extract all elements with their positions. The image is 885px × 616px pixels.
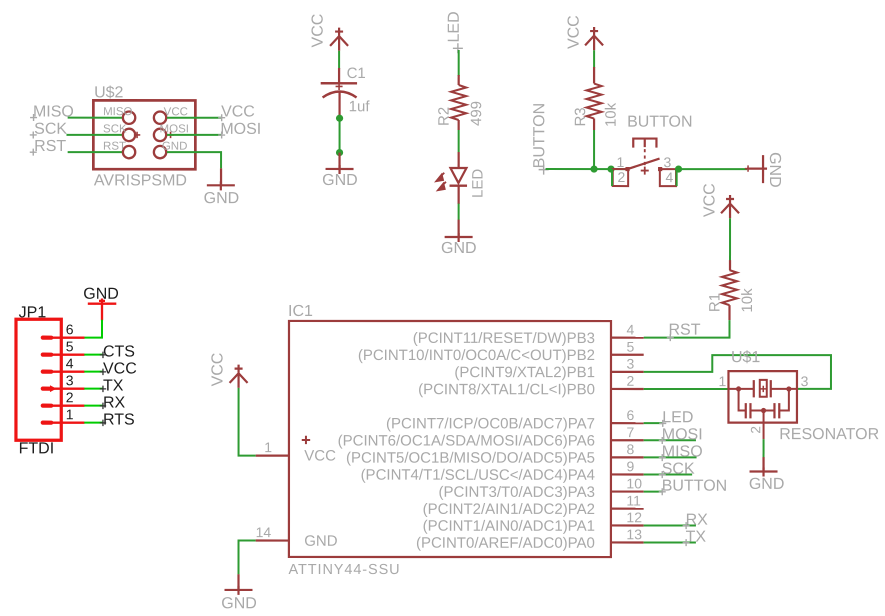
svg-text:SCK: SCK (662, 461, 695, 478)
svg-text:GND: GND (322, 172, 358, 189)
svg-text:JP1: JP1 (19, 304, 47, 321)
IC1 pin 10 stub (611, 490, 644, 492)
junction dot center (761, 408, 766, 413)
svg-text:1: 1 (66, 406, 74, 422)
svg-text:(PCINT8/XTAL1/CL<I)PB0: (PCINT8/XTAL1/CL<I)PB0 (418, 381, 595, 398)
connector U$2 outline (93, 100, 195, 169)
wire PB0 (pin2) to resonator pin 1 (644, 388, 729, 390)
junction dot (336, 149, 343, 156)
U$2 pin circle MISO (123, 111, 135, 123)
resonator crystal plates (754, 380, 771, 397)
svg-text:U$1: U$1 (731, 349, 760, 366)
junction dot (336, 115, 343, 122)
wire stub to GND symbol (338, 153, 340, 169)
supply VCC symbol (R3 VCC) (585, 27, 603, 50)
resistor R2 body (451, 85, 466, 120)
resistor R2 bottom lead (458, 120, 460, 130)
svg-text:3: 3 (66, 372, 74, 388)
svg-text:VCC: VCC (103, 360, 137, 377)
svg-text:(PCINT11/RESET/DW)PB3: (PCINT11/RESET/DW)PB3 (413, 330, 595, 347)
svg-text:VCC: VCC (310, 14, 327, 48)
resonator cap plates right (774, 403, 779, 418)
U$2 pin origin cross right (167, 132, 173, 138)
svg-text:499: 499 (468, 101, 485, 126)
wire net BUTTON horizontal (546, 168, 628, 170)
svg-text:VCC: VCC (566, 15, 583, 49)
IC1 pin 8 stub (611, 456, 644, 458)
svg-text:GND: GND (441, 240, 477, 257)
switch S1 contact pin 1 (625, 167, 629, 171)
svg-text:MOSI: MOSI (160, 123, 189, 135)
svg-text:(PCINT0/AREF/ADC0)PA0: (PCINT0/AREF/ADC0)PA0 (416, 535, 595, 552)
JP1 pin 1 contact (41, 421, 54, 425)
svg-text:1: 1 (718, 373, 726, 389)
resonator crystal pin cross (760, 386, 766, 392)
svg-text:2: 2 (626, 373, 634, 389)
switch S1 pin origin cross (641, 167, 649, 175)
wire IC1 pin 14 to GND (239, 541, 256, 575)
resonator internal crystal leads (728, 388, 797, 390)
ground symbol (rotated, right of switch) (747, 155, 767, 183)
pin end cross (745, 165, 751, 171)
capacitor C1 bottom lead (338, 92, 340, 118)
capacitor C1 pin cross (336, 83, 343, 90)
wire PB1 (pin3) to resonator pin 3 (loop) (644, 355, 831, 389)
U$2 pin circle RST (123, 146, 135, 158)
LED cathode lead (458, 186, 460, 204)
wire branch to pin 4 (676, 169, 678, 186)
svg-text:(PCINT3/T0/ADC3)PA3: (PCINT3/T0/ADC3)PA3 (438, 484, 594, 501)
IC1 pin 6 stub (611, 422, 644, 424)
connector JP1 outline (16, 319, 61, 440)
wire stub to GND symbol (458, 220, 460, 237)
capacitor C1 top plate (321, 82, 357, 84)
svg-text:R3: R3 (572, 107, 589, 126)
ground symbol (resonator GND) (750, 468, 778, 477)
svg-text:VCC: VCC (221, 104, 255, 121)
JP1 pin 5 lead (53, 354, 85, 356)
svg-text:10: 10 (626, 475, 642, 491)
wire VCC to C1 (338, 51, 340, 69)
svg-text:TX: TX (103, 377, 124, 394)
ground symbol (C1 GND) (326, 165, 354, 174)
svg-text:13: 13 (626, 526, 642, 542)
IC1 pin 4 stub (611, 337, 644, 339)
ground symbol (LED GND) (445, 233, 473, 242)
svg-text:GND: GND (221, 595, 257, 612)
svg-text:GND: GND (749, 476, 785, 493)
svg-text:BUTTON: BUTTON (531, 103, 548, 168)
wire stub to GND symbol (220, 168, 222, 185)
svg-text:RX: RX (103, 394, 126, 411)
svg-text:9: 9 (626, 458, 634, 474)
wire pin8 to MISO label (644, 456, 697, 458)
svg-text:RST: RST (34, 138, 66, 155)
U$2 pin circle MOSI (154, 129, 166, 141)
svg-text:SCK: SCK (103, 123, 127, 135)
net label origin cross (453, 43, 463, 53)
svg-text:MOSI: MOSI (220, 121, 261, 138)
U$2 pin origin cross left (134, 132, 140, 138)
IC1 pin 13 stub (611, 541, 644, 543)
svg-text:GND: GND (204, 190, 240, 207)
JP1 pin 6 contact (41, 336, 54, 340)
svg-text:MISO: MISO (103, 106, 132, 118)
wire R2 to LED (458, 130, 460, 152)
JP1 pin 5 contact (41, 353, 54, 357)
svg-text:3: 3 (626, 356, 634, 372)
svg-text:BUTTON: BUTTON (627, 114, 692, 131)
svg-text:(PCINT5/OC1B/MISO/DO/ADC5)PA5: (PCINT5/OC1B/MISO/DO/ADC5)PA5 (346, 450, 595, 467)
switch S1 lever (628, 159, 660, 170)
wire C1 to GND (339, 118, 341, 152)
LED anode lead (458, 152, 460, 168)
JP1 pin 3 contact (41, 387, 54, 391)
IC IC1 outline (289, 321, 611, 557)
svg-text:11: 11 (626, 492, 641, 508)
svg-text:LED: LED (470, 169, 487, 198)
wire U$2 GND pin to ground (167, 152, 221, 168)
svg-text:VCC: VCC (164, 106, 188, 118)
svg-text:(PCINT7/ICP/OC0B/ADC7)PA7: (PCINT7/ICP/OC0B/ADC7)PA7 (386, 415, 595, 432)
svg-text:1uf: 1uf (349, 98, 371, 115)
svg-text:U$2: U$2 (94, 84, 123, 101)
svg-text:(PCINT10/INT0/OC0A/C<OUT)PB2: (PCINT10/INT0/OC0A/C<OUT)PB2 (358, 347, 595, 364)
JP1 pin 2 contact (41, 404, 54, 408)
wire VCC to R1 (729, 218, 731, 261)
wire FTDI GND to pin 6 (84, 320, 102, 338)
ground symbol (U$2 GND) (207, 181, 235, 190)
wire pin6 to LED label (644, 422, 663, 424)
resistor R3 body (587, 84, 602, 119)
svg-text:(PCINT4/T1/SCL/USC</ADC4)PA4: (PCINT4/T1/SCL/USC</ADC4)PA4 (361, 467, 595, 484)
resonator cap branch left (739, 389, 764, 411)
svg-text:2: 2 (748, 426, 763, 434)
svg-text:6: 6 (66, 321, 74, 337)
svg-text:1: 1 (617, 154, 625, 170)
U$2 pin circle GND (154, 146, 166, 158)
capacitor C1 top lead (338, 68, 340, 83)
resistor R2 top lead (458, 75, 460, 85)
svg-text:GND: GND (162, 141, 188, 153)
svg-text:MOSI: MOSI (662, 426, 703, 443)
wire BUTTON net to ground (679, 168, 748, 170)
IC1 VCC pin plus marker (302, 436, 310, 444)
resistor R1 bottom lead (728, 305, 730, 320)
capacitor C1 bottom curved plate (323, 91, 357, 97)
JP1 pin 1 lead (53, 422, 84, 424)
svg-text:VCC: VCC (304, 448, 336, 465)
svg-text:R2: R2 (436, 107, 453, 126)
svg-text:MISO: MISO (662, 443, 703, 460)
supply VCC symbol (R1 VCC) (721, 195, 739, 218)
wire pin12 to RX label (644, 524, 696, 526)
resonator U$1 outline (728, 371, 797, 423)
svg-text:R1: R1 (706, 293, 723, 312)
wire JP1 pin 4 to VCC (84, 371, 102, 373)
svg-text:8: 8 (626, 441, 634, 457)
U$2 pin circle SCK (123, 129, 135, 141)
wire U$2 VCC pin to label (167, 117, 222, 119)
svg-text:1: 1 (264, 439, 272, 455)
svg-text:AVRISPSMD: AVRISPSMD (94, 172, 187, 189)
IC1 pin 11 stub (611, 508, 644, 510)
svg-text:(PCINT6/OC1A/SDA/MOSI/ADC6)PA6: (PCINT6/OC1A/SDA/MOSI/ADC6)PA6 (338, 432, 595, 449)
switch S1 contact pin 3 (658, 167, 662, 171)
junction dot right (786, 386, 791, 391)
svg-text:(PCINT1/AIN0/ADC1)PA1: (PCINT1/AIN0/ADC1)PA1 (423, 518, 595, 535)
svg-text:VCC: VCC (209, 353, 226, 387)
wire stub to GND symbol (237, 574, 239, 590)
IC1 pin 1 stub (VCC) (256, 455, 289, 457)
IC1 pin 7 stub (611, 439, 644, 441)
IC1 pin 5 stub (611, 354, 644, 356)
svg-text:2: 2 (618, 169, 626, 185)
wire VCC to IC1 pin 1 (239, 388, 256, 456)
svg-text:RST: RST (668, 322, 700, 339)
resonator cap plates left (746, 403, 751, 418)
wire R1 to RST net (644, 320, 730, 338)
svg-text:VCC: VCC (702, 183, 719, 217)
wire JP1 pin 1 to RTS (84, 422, 102, 424)
svg-text:4: 4 (66, 355, 74, 371)
svg-text:(PCINT9/XTAL2)PB1: (PCINT9/XTAL2)PB1 (454, 364, 595, 381)
wire net MISO to U$2 pin (68, 117, 123, 119)
wire pin9 to SCK label (644, 473, 693, 475)
svg-text:LED: LED (446, 11, 463, 42)
U$2 pin circle VCC (154, 111, 166, 123)
wire pin13 to TX label (644, 541, 696, 543)
LED triangle (450, 168, 466, 183)
wire net SCK to U$2 pin (66, 134, 123, 136)
junction dot at R3 (590, 165, 597, 172)
svg-text:12: 12 (626, 509, 642, 525)
svg-text:4: 4 (626, 321, 634, 337)
svg-text:GND: GND (766, 152, 783, 188)
resistor R1 top lead (729, 260, 731, 270)
JP1 pin 2 lead (53, 405, 84, 407)
wire LED to GND (458, 204, 460, 220)
JP1 pin 3 lead (53, 388, 84, 390)
wire LED net to R2 (458, 50, 460, 76)
svg-text:10k: 10k (739, 288, 756, 313)
svg-text:ATTINY44-SSU: ATTINY44-SSU (289, 562, 401, 578)
ground symbol (IC1 GND) (224, 586, 252, 595)
supply VCC symbol (IC1 VCC) (230, 365, 248, 388)
svg-text:5: 5 (626, 339, 634, 355)
wire pin10 to BUTTON label (644, 491, 663, 493)
supply VCC symbol (C1 VCC) (330, 28, 348, 51)
svg-text:RST: RST (103, 141, 126, 153)
switch S1 actuator dashed link (644, 149, 646, 166)
junction dot left (736, 386, 741, 391)
IC1 pin 9 stub (611, 473, 644, 475)
net label origin cross (539, 165, 549, 175)
svg-text:4: 4 (666, 169, 674, 185)
svg-text:CTS: CTS (103, 343, 135, 360)
resistor R1 body (722, 270, 737, 305)
svg-text:6: 6 (626, 407, 634, 423)
svg-text:7: 7 (626, 424, 634, 440)
wire net RST to U$2 pin (68, 151, 123, 153)
JP1 pin 6 lead (53, 337, 84, 339)
resonator pin 2 lead (763, 411, 765, 440)
wire branch to pin 2 (611, 169, 613, 186)
svg-text:IC1: IC1 (288, 303, 313, 320)
svg-text:5: 5 (66, 338, 74, 354)
svg-text:(PCINT2/AIN1/ADC2)PA2: (PCINT2/AIN1/ADC2)PA2 (423, 501, 595, 518)
wire JP1 pin 5 to CTS (84, 354, 102, 356)
svg-text:2: 2 (66, 389, 74, 405)
wire JP1 pin 2 to RX (84, 405, 102, 407)
ground symbol FTDI (red, flipped) (88, 298, 117, 320)
svg-text:RTS: RTS (103, 411, 135, 428)
wire pin7 to MOSI label (644, 439, 696, 441)
resonator cap branch right (764, 389, 789, 411)
JP1 pin 4 lead (53, 371, 85, 373)
resistor R3 top lead (593, 67, 595, 84)
resistor R3 bottom lead (593, 119, 595, 131)
junction dot at switch pin 4 branch (675, 165, 682, 172)
junction dot at switch pin 2 branch (607, 165, 614, 172)
svg-text:RESONATOR: RESONATOR (779, 426, 879, 443)
svg-text:3: 3 (801, 373, 809, 389)
LED cathode bar (450, 185, 468, 187)
wire VCC to R3 (593, 50, 595, 68)
switch S1 actuator bracket (633, 139, 656, 148)
svg-text:GND: GND (304, 533, 338, 550)
svg-text:C1: C1 (347, 65, 366, 82)
wire U$2 MOSI pin to label (167, 134, 222, 136)
switch S1 pin 4 box (660, 169, 676, 186)
LED emission arrows (436, 173, 446, 190)
JP1 pin 4 contact (41, 370, 54, 374)
svg-text:3: 3 (664, 154, 672, 170)
svg-text:BUTTON: BUTTON (662, 478, 727, 495)
resonator crystal body (760, 380, 767, 397)
IC1 pin 12 stub (611, 524, 644, 526)
switch S1 pin 2 box (613, 169, 628, 186)
IC1 pin 3 stub (611, 371, 644, 373)
IC1 pin 14 stub (GND) (256, 539, 289, 541)
svg-text:LED: LED (662, 409, 693, 426)
svg-text:SCK: SCK (34, 121, 67, 138)
wire resonator pin2 to GND (763, 439, 765, 458)
svg-text:14: 14 (256, 524, 272, 540)
wire R3 to BUTTON net (593, 130, 595, 169)
svg-text:FTDI: FTDI (19, 440, 55, 457)
wire JP1 pin 3 to TX (84, 388, 102, 390)
IC1 pin 2 stub (611, 388, 644, 390)
svg-text:10k: 10k (603, 102, 620, 127)
wire stub to GND symbol (762, 457, 764, 471)
